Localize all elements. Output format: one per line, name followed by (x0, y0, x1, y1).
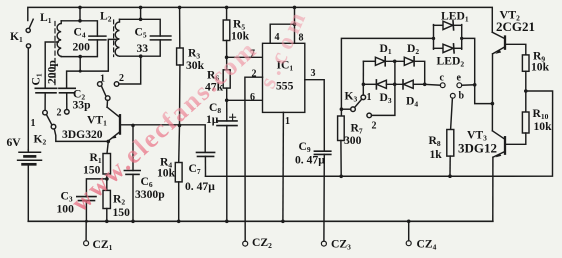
resistor R2 (103, 190, 110, 208)
resistor R8 (447, 130, 454, 157)
diode D2 (385, 57, 425, 85)
wire top supply rail (28, 7, 493, 32)
wire pins 4 and 8 feed (294, 7, 296, 43)
wire bridge right to terminal c (425, 83, 441, 86)
LED D5 LED1 (434, 21, 462, 30)
resistor R3 (177, 48, 184, 65)
wire b to R8 (451, 98, 453, 129)
wire K2b pole to emitter node (54, 129, 108, 142)
svg-text:e: e (457, 73, 462, 84)
resistor R9 (522, 55, 529, 71)
capacitor C9 plates (314, 151, 330, 154)
svg-text:1k: 1k (430, 148, 443, 161)
wire base node to R4 (178, 125, 181, 162)
wire bottom ground rail (28, 220, 493, 222)
wire R5 top lead (226, 7, 228, 20)
wire pin1 to ground (282, 112, 285, 221)
switch K2 section a (98, 82, 119, 101)
resistor R7 (338, 116, 345, 141)
svg-text:1: 1 (367, 92, 372, 103)
capacitor C3 plates (77, 197, 96, 201)
resistor R6 (223, 70, 230, 88)
wire emitter node to R1 (107, 141, 108, 153)
wire R2 to ground rail (106, 209, 108, 222)
svg-text:1: 1 (285, 116, 290, 127)
wire R4 to ground (178, 182, 180, 221)
svg-text:0. 47μ: 0. 47μ (295, 154, 325, 167)
svg-text:1: 1 (100, 74, 105, 85)
tank box L2/C5 outline (120, 19, 161, 56)
wire pin2 to CZ2 (245, 77, 263, 241)
battery B1 6V (18, 150, 42, 222)
wire K2a pole to VT1 collector (106, 100, 108, 107)
wire VT2 emitter down to VT3 collector (491, 54, 493, 131)
wire C3 bottom to ground (85, 201, 87, 222)
tank box L1/C4 outline (61, 21, 97, 57)
wire e to node (462, 84, 475, 86)
svg-text:6V: 6V (7, 136, 22, 149)
wire C8 bottom to ground (226, 126, 228, 222)
wire C9 to CZ3 (323, 154, 325, 241)
svg-text:c: c (440, 73, 445, 84)
wire pin7 (227, 56, 263, 58)
wire K3 contact2 to bridge middle (372, 61, 395, 115)
svg-text:2CG21: 2CG21 (496, 19, 535, 34)
inductor L1 tank coil (57, 21, 61, 57)
terminal c (440, 83, 445, 88)
wire pin3 to C9 (305, 80, 325, 152)
wire C2 bottom to K2b contact2 (66, 93, 68, 110)
wire bias rail y176 (206, 91, 553, 176)
diode D1 (363, 57, 385, 66)
C8 plus sign (230, 114, 236, 120)
diode D4 (386, 80, 424, 89)
wire LED branch feed from K3 node (341, 38, 433, 116)
svg-text:6: 6 (250, 92, 255, 103)
wire R1 to R2 (106, 174, 108, 190)
wire C3 top link (86, 179, 107, 197)
IC U1 555 timer box (263, 43, 305, 112)
wire node tank1/C2/L2-tap at y71 (67, 39, 116, 88)
terminal CZ1 (84, 221, 89, 245)
wire R3 top lead (179, 7, 181, 48)
wire R10 to VT3 base (506, 133, 526, 144)
svg-text:33: 33 (137, 42, 149, 55)
wire K3 contact1 to bridge left (362, 61, 364, 95)
capacitor C1 plates (35, 88, 56, 93)
svg-text:3DG12: 3DG12 (458, 141, 497, 156)
wire C6 bottom to ground (132, 174, 134, 221)
LED assembly box with LED1 and LED2 (434, 25, 462, 50)
svg-text:10k: 10k (157, 167, 176, 180)
svg-text:LED2: LED2 (437, 55, 465, 69)
switch K1 (26, 19, 33, 48)
wire VT3 emitter to ground rail (492, 157, 494, 221)
svg-text:33p: 33p (73, 99, 91, 112)
terminal b (450, 93, 455, 98)
svg-text:200: 200 (73, 41, 91, 54)
capacitor C6 plates (124, 171, 140, 175)
resistor R5 (223, 20, 230, 41)
svg-text:3300p: 3300p (135, 188, 165, 201)
capacitor C2 plates (59, 88, 75, 93)
L1 core dashed line (54, 22, 56, 86)
resistor R1 (103, 154, 111, 175)
terminal CZ2 (243, 241, 248, 246)
svg-text:150: 150 (113, 206, 131, 219)
svg-text:3DG320: 3DG320 (62, 128, 103, 141)
wire tank1 top lead (79, 7, 81, 20)
wire R8 to bias rail (449, 156, 451, 176)
svg-text:b: b (459, 91, 465, 102)
inductor L2 tank coil (115, 19, 119, 56)
terminal e (457, 83, 462, 88)
svg-text:1μ: 1μ (206, 113, 219, 126)
capacitor C5 plates (150, 36, 171, 40)
capacitor C8 plates (217, 121, 237, 126)
svg-text:10k: 10k (531, 61, 550, 74)
svg-text:2: 2 (57, 108, 62, 119)
transistor VT2 2CG21 (492, 32, 526, 55)
svg-text:10k: 10k (534, 120, 553, 133)
svg-text:3: 3 (311, 68, 316, 79)
capacitor C7 plates (197, 152, 215, 156)
wire C1 bottom to K2b contact1 (44, 93, 46, 110)
LED D6 LED2 (434, 44, 462, 53)
svg-text:30k: 30k (186, 59, 205, 72)
wire tank1 bottom drop (79, 57, 81, 72)
wire L1 tap to C1 (45, 42, 58, 88)
wire VT1 base rail (121, 125, 205, 153)
wire K1 to battery (27, 48, 29, 150)
transistor VT3 3DG12 (492, 131, 505, 158)
wire pin6 (227, 99, 263, 101)
resistor R4 (175, 163, 182, 182)
diode D3 (363, 80, 386, 89)
capacitor C4 plates (89, 36, 106, 40)
wire LED box right to e-node (462, 38, 492, 103)
wire R9 to R10 (525, 71, 527, 112)
wire R5 to R6 (226, 41, 228, 70)
wire tank2 bottom to K2a contact2 (119, 56, 141, 84)
terminal CZ4 (406, 221, 411, 245)
wire R7 to bias rail (340, 141, 342, 177)
wire C7 bottom to bias rail (204, 156, 206, 176)
wire R3 to base node (179, 65, 181, 125)
svg-text:2: 2 (119, 73, 124, 84)
svg-text:0. 47μ: 0. 47μ (185, 180, 215, 193)
svg-text:100: 100 (57, 203, 75, 216)
wire tank2 top lead (140, 7, 142, 19)
svg-text:1: 1 (31, 118, 36, 129)
svg-text:LED1: LED1 (441, 9, 469, 23)
terminal CZ3 (321, 241, 326, 246)
wire R6 to C8 (226, 88, 228, 121)
L2 core dashed line (113, 20, 115, 57)
svg-text:200p: 200p (46, 60, 59, 84)
wire base node to C6 (132, 125, 134, 170)
switch K3 (341, 95, 371, 118)
resistor R10 (522, 112, 529, 133)
transistor VT1 3DG320 (107, 107, 120, 140)
svg-text:300: 300 (344, 134, 362, 147)
switch K2 section b (43, 110, 69, 130)
svg-text:2: 2 (372, 121, 377, 132)
